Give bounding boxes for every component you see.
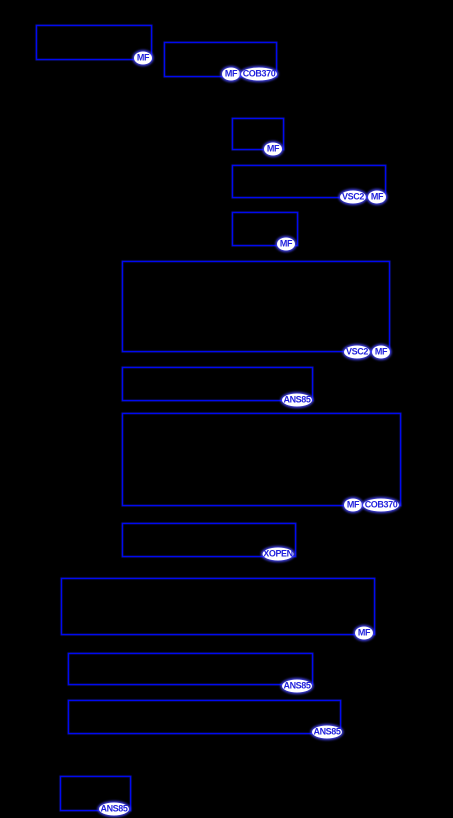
flag MF on box 4 (368, 191, 386, 204)
flag VSC2 on box 4 (340, 191, 366, 204)
syntax box 1 (36, 25, 152, 60)
syntax box 7 (122, 367, 313, 401)
syntax box 4 (232, 165, 386, 198)
flag MF on box 5 (277, 238, 295, 251)
flag ANS85 on box 7 (282, 394, 312, 407)
flag MF on box 1 (134, 52, 152, 65)
syntax box 11 (68, 653, 313, 685)
syntax box 10 (61, 578, 375, 635)
syntax box 3 (232, 118, 284, 150)
flag MF on box 8 (344, 499, 362, 512)
flag MF on box 6 (372, 346, 390, 359)
syntax box 9 (122, 523, 296, 557)
flag MF on box 3 (264, 143, 282, 156)
flag ANS85 on box 12 (312, 726, 342, 739)
flag VSC2 on box 6 (344, 346, 370, 359)
syntax box 8 (122, 413, 401, 506)
syntax box 5 (232, 212, 298, 246)
flag XOPEN on box 9 (263, 548, 294, 561)
syntax box 6 (122, 261, 390, 352)
syntax box 2 (164, 42, 277, 77)
syntax box 12 (68, 700, 341, 734)
flag MF on box 2 (222, 68, 240, 81)
flag COB370 on box 8 (363, 499, 399, 512)
flag MF on box 10 (355, 627, 373, 640)
flag COB370 on box 2 (241, 68, 277, 81)
flag ANS85 on box 11 (282, 680, 312, 693)
syntax box 13 (60, 776, 131, 811)
flag ANS85 on box 13 (99, 803, 129, 816)
